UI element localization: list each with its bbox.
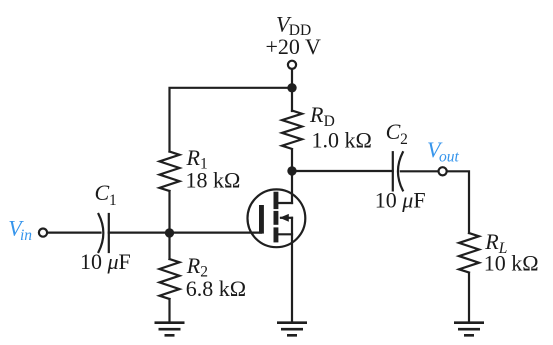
svg-text:out: out	[439, 149, 460, 166]
svg-text:C: C	[95, 180, 110, 205]
wire: RD bottom to drain node and down to MOSFET drain lead	[291, 150, 293, 203]
wire: drain node to C2 left plate	[292, 170, 393, 172]
capacitor C1 flat plate	[108, 214, 110, 252]
svg-text:+20 V: +20 V	[266, 34, 322, 59]
ground symbol under RL	[454, 323, 484, 336]
label Vout (blue)	[427, 137, 460, 165]
label Vin (blue)	[8, 216, 32, 244]
MOSFET body-arrow lead inside circle	[281, 217, 292, 219]
MOSFET drain lead inside circle	[278, 202, 292, 204]
wire: top horizontal from R1 branch to VDD node, corner down to R1 top	[170, 88, 293, 152]
svg-text:10 μF: 10 μF	[375, 187, 426, 212]
MOSFET Q1 body circle	[248, 189, 306, 247]
svg-text:18 kΩ: 18 kΩ	[186, 167, 241, 192]
wire: C1 flat plate to gate node, continuing to MOSFET gate	[109, 232, 261, 234]
MOSFET channel bar bottom (source) segment	[274, 227, 279, 242]
wire: MOSFET source/body vertical down to ground	[291, 218, 293, 322]
MOSFET channel bar middle (body) segment	[274, 211, 279, 225]
wire: R1 bottom through gate node to R2 top	[168, 191, 170, 259]
resistor RD 1.0k zigzag	[282, 111, 302, 149]
ground symbol under MOSFET source	[277, 323, 307, 336]
junction dot at gate node	[165, 228, 174, 237]
svg-text:1.0 kΩ: 1.0 kΩ	[312, 128, 372, 153]
resistor RL 10k zigzag	[459, 233, 479, 273]
svg-text:10 μF: 10 μF	[80, 249, 131, 274]
svg-text:R: R	[186, 145, 201, 170]
wire: VDD terminal stub down through top junction to RD top	[291, 69, 293, 111]
capacitor C2 flat plate	[392, 152, 394, 190]
resistor R1 18k zigzag	[160, 152, 180, 192]
svg-text:C: C	[386, 119, 401, 144]
junction dot at VDD node	[287, 83, 296, 92]
MOSFET body arrowhead pointing left	[280, 214, 289, 222]
capacitor C2 curved plate	[398, 152, 403, 190]
wire: R2 bottom to ground	[168, 299, 170, 322]
svg-text:6.8 kΩ: 6.8 kΩ	[186, 276, 246, 301]
wire: RL bottom to ground	[468, 273, 470, 322]
svg-text:2: 2	[400, 131, 408, 148]
label R2	[186, 253, 208, 281]
label VDD supply	[276, 11, 311, 39]
open terminal circle Vin	[39, 229, 47, 237]
MOSFET gate bar	[259, 205, 264, 234]
svg-text:10 kΩ: 10 kΩ	[484, 250, 539, 275]
wire: Vout terminal to corner, down to RL top	[447, 171, 469, 233]
label C1	[95, 180, 117, 209]
wire: C2 curved plate to Vout terminal	[401, 170, 439, 172]
junction dot at drain node	[287, 166, 296, 175]
open terminal circle VDD	[288, 61, 296, 69]
wire: Vin terminal to C1 curved plate	[47, 232, 101, 234]
resistor R2 6.8k zigzag	[160, 259, 180, 299]
label RL	[484, 229, 507, 257]
label RD	[309, 102, 335, 130]
svg-text:R: R	[186, 253, 201, 278]
label R1	[186, 145, 208, 173]
svg-text:in: in	[20, 227, 32, 244]
ground symbol under R2	[155, 323, 185, 336]
label C2	[386, 119, 408, 148]
svg-text:1: 1	[109, 192, 117, 209]
MOSFET source lead inside circle	[278, 233, 292, 235]
open terminal circle Vout	[439, 167, 447, 175]
svg-text:R: R	[309, 102, 324, 127]
MOSFET channel bar top (drain) segment	[274, 192, 279, 209]
capacitor C1 curved plate	[99, 214, 104, 252]
